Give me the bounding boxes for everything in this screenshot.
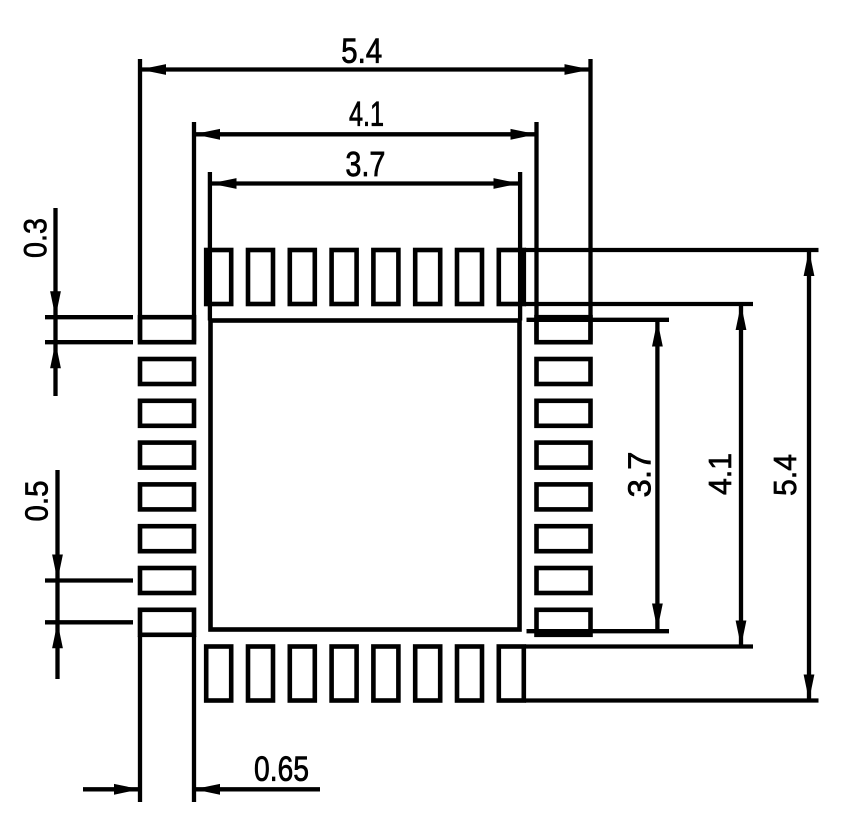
dimension 5.4 right: dimension line [807, 250, 811, 701]
dimension 4.1 top: extension line left [192, 122, 196, 342]
dimension 0.65 bottom: left tail [83, 787, 140, 791]
pad 2 right column [537, 359, 591, 384]
dimension 0.3 left: label [24, 219, 47, 257]
dimension 0.65 bottom: right tail [194, 787, 320, 791]
dimension 5.4 right: bottom arrowhead [804, 675, 815, 701]
pad 7 bottom row [457, 647, 482, 701]
pad 5 left column [140, 484, 194, 509]
dimension 3.7 right: extension line top [527, 318, 670, 322]
pad 3 top row [290, 250, 315, 304]
pad 7 top row [457, 250, 482, 304]
pad 6 bottom row [415, 647, 440, 701]
dimension 3.7 top: right arrowhead [494, 178, 520, 189]
dimension 0.65 bottom: label [255, 756, 308, 781]
dimension 5.4 right: extension line top [525, 248, 819, 252]
dimension 4.1 right: extension line top [525, 302, 753, 306]
pad 2 left column [140, 359, 194, 384]
dimension 3.7 top: extension line right [518, 172, 522, 321]
dimension 0.5 left: upper arrowhead [52, 555, 63, 581]
pad 4 top row [332, 250, 357, 304]
pad 7 left column [140, 568, 194, 593]
dimension 0.65 bottom: left arrowhead [114, 784, 140, 795]
dimension 0.65 bottom: right arrowhead [194, 784, 220, 795]
dimension 0.3 left: lower arrowhead [50, 342, 61, 368]
pad 3 left column [140, 401, 194, 426]
pad 1 right column [537, 317, 591, 342]
pad 4 bottom row [332, 647, 357, 701]
dimension 3.7 top: extension line left [208, 172, 212, 321]
dimension 4.1 right: extension line bottom [525, 644, 753, 648]
pad 1 top row [206, 250, 231, 304]
pad 4 right column [537, 443, 591, 468]
dimension 5.4 right: top arrowhead [804, 250, 815, 276]
dimension 4.1 top: dimension line [194, 132, 537, 136]
pad 3 right column [537, 401, 591, 426]
dimension 3.7 right: extension line bottom [527, 629, 670, 633]
dimension 3.7 top: dimension line [211, 181, 520, 185]
pad 8 left column [140, 610, 194, 635]
dimension 5.4 top: extension line right [588, 59, 592, 342]
dimension 4.1 right: top arrowhead [736, 304, 747, 330]
pad 3 bottom row [290, 647, 315, 701]
dimension 5.4 top: label [342, 39, 381, 63]
dimension 3.7 right: top arrowhead [652, 321, 663, 347]
dimension 3.7 right: bottom arrowhead [652, 604, 663, 630]
pad 8 bottom row [499, 647, 524, 701]
dimension 0.5 left: extension line lower (pad8 centre) [45, 620, 133, 624]
dimension 0.5 left: dimension line with tails [55, 470, 59, 679]
dimension 4.1 right: bottom arrowhead [736, 621, 747, 647]
dimension 0.65 bottom: extension line right [192, 636, 196, 802]
dimension 4.1 right: label [709, 454, 731, 494]
pad 8 top row [499, 250, 524, 304]
dimension 5.4 top: dimension line [140, 67, 591, 71]
dimension 3.7 top: label [346, 152, 383, 177]
pad 7 right column [537, 568, 591, 593]
dimension 5.4 top: extension line left [138, 59, 142, 342]
dimension 3.7 right: dimension line [655, 321, 659, 630]
dimension 4.1 top: extension line right [534, 122, 538, 342]
pad 1 bottom row [206, 647, 231, 701]
dimension 5.4 right: label [774, 455, 796, 495]
pad 6 left column [140, 526, 194, 551]
dimension 0.3 left: dimension line with tails [53, 208, 57, 396]
dimension 5.4 right: extension line bottom [525, 698, 819, 702]
pad 8 right column [537, 610, 591, 635]
dimension 4.1 top: left arrowhead [194, 129, 220, 140]
dimension 0.5 left: lower arrowhead [52, 622, 63, 648]
dimension 4.1 right: dimension line [739, 304, 743, 647]
pad 4 left column [140, 443, 194, 468]
pad 1 left column [140, 317, 194, 342]
dimension 0.3 left: extension line lower [45, 340, 133, 344]
dimension 3.7 top: left arrowhead [211, 178, 237, 189]
dimension 4.1 top: right arrowhead [511, 129, 537, 140]
pad 6 right column [537, 526, 591, 551]
dimension 0.65 bottom: extension line left [138, 636, 142, 802]
dimension 4.1 top: label [350, 102, 383, 126]
exposed center pad (3.7 x 3.7) [211, 321, 520, 630]
dimension 0.3 left: upper arrowhead [50, 291, 61, 317]
dimension 0.3 left: extension line upper [45, 315, 133, 319]
dimension 5.4 top: right arrowhead [565, 64, 591, 75]
pad 2 top row [248, 250, 273, 304]
pad 5 top row [373, 250, 398, 304]
dimension 0.5 left: label [25, 482, 48, 521]
dimension 5.4 top: left arrowhead [140, 64, 166, 75]
pad 2 bottom row [248, 647, 273, 701]
pad 5 bottom row [373, 647, 398, 701]
dimension 0.5 left: extension line upper (pad7 centre) [45, 578, 133, 582]
pad 5 right column [537, 484, 591, 509]
dimension 3.7 right: label [628, 453, 651, 496]
pad 6 top row [415, 250, 440, 304]
